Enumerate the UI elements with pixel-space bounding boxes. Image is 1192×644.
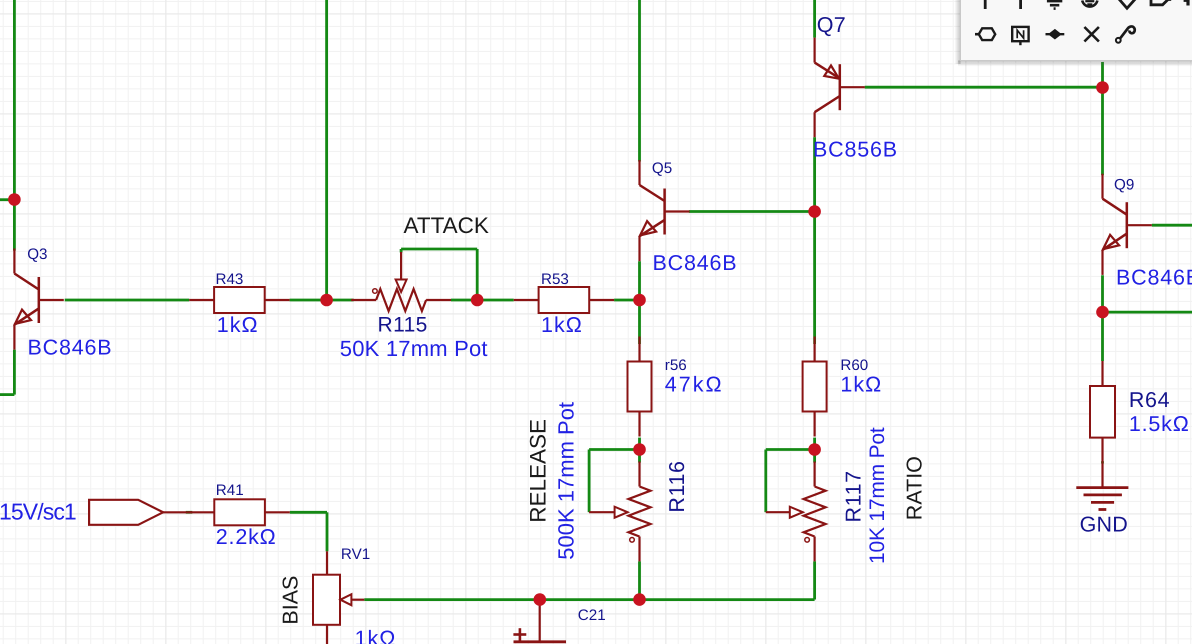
- wire left edge to junction: [0, 198, 14, 201]
- wire vertical from top to main node: [325, 0, 328, 300]
- svg-text:BC846B: BC846B: [653, 251, 738, 275]
- toolbar icon probe hook: [1116, 26, 1135, 42]
- junction R115 wiper node: [471, 294, 484, 307]
- toolbar icon net flag diamond: [1119, 0, 1136, 8]
- svg-text:R53: R53: [541, 271, 569, 288]
- wire Q3 base to R43: [65, 299, 190, 302]
- wire Q3 emitter down and left to edge: [0, 350, 14, 395]
- label R115 reference: [378, 314, 428, 337]
- svg-text:2.2kΩ: 2.2kΩ: [216, 525, 277, 549]
- label BIAS: [279, 576, 303, 625]
- wire R53 to node: [614, 299, 639, 302]
- svg-text:50K 17mm Pot: 50K 17mm Pot: [340, 336, 488, 361]
- label Q5 value BC846B: [653, 251, 738, 275]
- wire R43 to R115: [290, 299, 354, 302]
- toolbar icon earth: [1082, 1, 1097, 7]
- svg-text:RATIO: RATIO: [903, 456, 927, 520]
- junction C21 bottom rail: [534, 593, 547, 606]
- junction R116 bottom rail: [633, 593, 646, 606]
- label Q9 reference: [1114, 177, 1134, 194]
- wire vertical top to Q5 collector: [638, 0, 641, 162]
- svg-text:R41: R41: [216, 482, 244, 499]
- svg-text:47kΩ: 47kΩ: [665, 373, 724, 397]
- label Q3 reference: [27, 246, 47, 263]
- label GND: [1080, 513, 1128, 537]
- svg-text:Q5: Q5: [652, 160, 672, 177]
- toolbar icon hierarchical partial: [1184, 0, 1188, 6]
- label r56 value: [665, 373, 724, 397]
- junction R53 node: [633, 294, 646, 307]
- wire left vertical net to Q3 collector: [13, 0, 16, 251]
- wire R116 wiper loop: [589, 450, 639, 513]
- resistor R53: [514, 287, 614, 313]
- label Q9 value BC846B: [1116, 266, 1192, 290]
- potentiometer RV1: [313, 551, 364, 644]
- wire R115 to R53: [451, 299, 514, 302]
- svg-text:BC846B: BC846B: [1116, 266, 1192, 290]
- label R117 reference: [842, 470, 866, 522]
- svg-text:15V/sc1: 15V/sc1: [0, 499, 76, 525]
- label R53 value 1k ohm: [541, 313, 583, 337]
- toolbar icon global label: [1151, 0, 1170, 5]
- junction Q5 base Q7 collector: [808, 205, 821, 218]
- label R116 value: [554, 402, 579, 560]
- toolbar panel: [955, 0, 1192, 67]
- toolbar icon no-connect X: [1084, 27, 1099, 42]
- global label 15V/sc1: [89, 500, 192, 525]
- wire top to Q7 emitter: [813, 0, 816, 38]
- svg-text:500K 17mm Pot: 500K 17mm Pot: [554, 402, 579, 560]
- capacitor C21: [513, 605, 566, 642]
- label RELEASE: [526, 419, 551, 523]
- junction Q7 base right net: [1096, 81, 1109, 94]
- transistor Q3: [14, 249, 63, 350]
- wire Q5 emitter to r56: [638, 261, 641, 344]
- toolbar icon power port: [1047, 1, 1062, 9]
- toolbar icon junction tool: [1046, 30, 1065, 39]
- ground GND symbol: [1076, 463, 1128, 510]
- label R41 reference: [216, 482, 244, 499]
- svg-text:R115: R115: [378, 314, 428, 337]
- label Q7 value BC856B: [813, 138, 898, 162]
- label R117 value: [866, 427, 889, 564]
- svg-text:Q7: Q7: [817, 13, 846, 37]
- svg-text:ATTACK: ATTACK: [404, 213, 489, 238]
- wire R116 to bottom rail: [638, 561, 641, 599]
- toolbar icon netclass N box: [1012, 27, 1028, 45]
- label R115 value: [340, 336, 488, 361]
- junction Q9 emitter node: [1096, 306, 1109, 319]
- svg-text:C21: C21: [578, 607, 606, 624]
- potentiometer R117: [766, 462, 826, 562]
- svg-text:1.5kΩ: 1.5kΩ: [1129, 412, 1190, 436]
- resistor R41: [189, 499, 289, 525]
- junction main node A: [320, 294, 333, 307]
- svg-text:Q9: Q9: [1114, 177, 1134, 194]
- wire Q5 base to Q7 collector node: [689, 210, 815, 213]
- wire r56 to R116: [638, 438, 641, 463]
- junction left net: [8, 193, 21, 206]
- transistor Q9: [1103, 174, 1152, 275]
- wire Q7 collector to R60: [813, 137, 816, 344]
- label Q7 reference: [817, 13, 846, 37]
- transistor Q7: [815, 38, 865, 138]
- wire Q9 emitter to R64: [1101, 275, 1104, 361]
- wire R115 wiper loop: [401, 249, 477, 300]
- svg-text:Q3: Q3: [27, 246, 47, 263]
- svg-text:BC846B: BC846B: [28, 336, 113, 360]
- toolbar icon hierarchical label hexagon: [975, 28, 995, 40]
- wire right vertical to Q9 collector: [1101, 62, 1104, 175]
- svg-text:1kΩ: 1kΩ: [840, 373, 882, 397]
- wire Q9 emitter node to right edge: [1103, 311, 1192, 314]
- label r56 reference: [665, 357, 687, 374]
- label C21 reference: [578, 607, 606, 624]
- wire label to R41: [186, 511, 193, 514]
- svg-text:1kΩ: 1kΩ: [355, 627, 397, 644]
- potentiometer R115: [351, 252, 451, 311]
- label R64 value: [1129, 412, 1190, 436]
- wire R117 to bottom rail: [813, 561, 816, 599]
- svg-text:R43: R43: [216, 271, 244, 288]
- label R43 reference: [216, 271, 244, 288]
- label Q3 value BC846B: [28, 336, 113, 360]
- svg-text:1kΩ: 1kΩ: [541, 313, 583, 337]
- svg-text:RV1: RV1: [341, 546, 370, 563]
- resistor R43: [189, 287, 289, 313]
- wire R41 to RV1: [290, 512, 327, 551]
- wire stub above GND: [1101, 461, 1104, 463]
- svg-text:r56: r56: [665, 357, 687, 374]
- junction r56 R116: [633, 443, 646, 456]
- label ATTACK: [404, 213, 489, 238]
- svg-text:RELEASE: RELEASE: [526, 419, 551, 523]
- svg-text:BIAS: BIAS: [279, 576, 303, 625]
- label R116 reference: [665, 460, 689, 512]
- label 15V/sc1 text: [0, 499, 76, 525]
- wire R117 wiper loop: [766, 450, 815, 513]
- wire R60 to R117: [813, 438, 816, 463]
- svg-text:10K 17mm Pot: 10K 17mm Pot: [866, 427, 889, 564]
- svg-text:1kΩ: 1kΩ: [217, 313, 259, 337]
- svg-text:R64: R64: [1129, 388, 1170, 412]
- transistor Q5: [640, 160, 690, 261]
- label R53 reference: [541, 271, 569, 288]
- svg-text:R60: R60: [840, 357, 868, 374]
- label RV1 reference: [341, 546, 370, 563]
- toolbar icon wire tool: [984, 0, 987, 9]
- wire Q7 base to right node: [865, 86, 1103, 89]
- label RATIO: [903, 456, 927, 520]
- resistor R60: [803, 337, 827, 437]
- svg-text:R117: R117: [842, 470, 866, 522]
- wire Q9 base to right edge: [1152, 224, 1192, 227]
- svg-text:GND: GND: [1080, 513, 1128, 537]
- label R41 value: [216, 525, 277, 549]
- resistor R64: [1090, 361, 1115, 463]
- label R60 value: [840, 373, 882, 397]
- toolbar icon bus tool: [1019, 0, 1022, 9]
- junction R60 R117: [808, 443, 821, 456]
- resistor r56: [628, 337, 652, 437]
- label R64 reference: [1129, 388, 1170, 412]
- label Q5 reference: [652, 160, 672, 177]
- svg-text:BC856B: BC856B: [813, 138, 898, 162]
- svg-text:R116: R116: [665, 460, 689, 512]
- label R43 value 1k ohm: [217, 313, 259, 337]
- label R60 reference: [840, 357, 868, 374]
- wire bottom rail: [364, 598, 814, 601]
- label RV1 value: [355, 627, 397, 644]
- potentiometer R116: [589, 462, 650, 562]
